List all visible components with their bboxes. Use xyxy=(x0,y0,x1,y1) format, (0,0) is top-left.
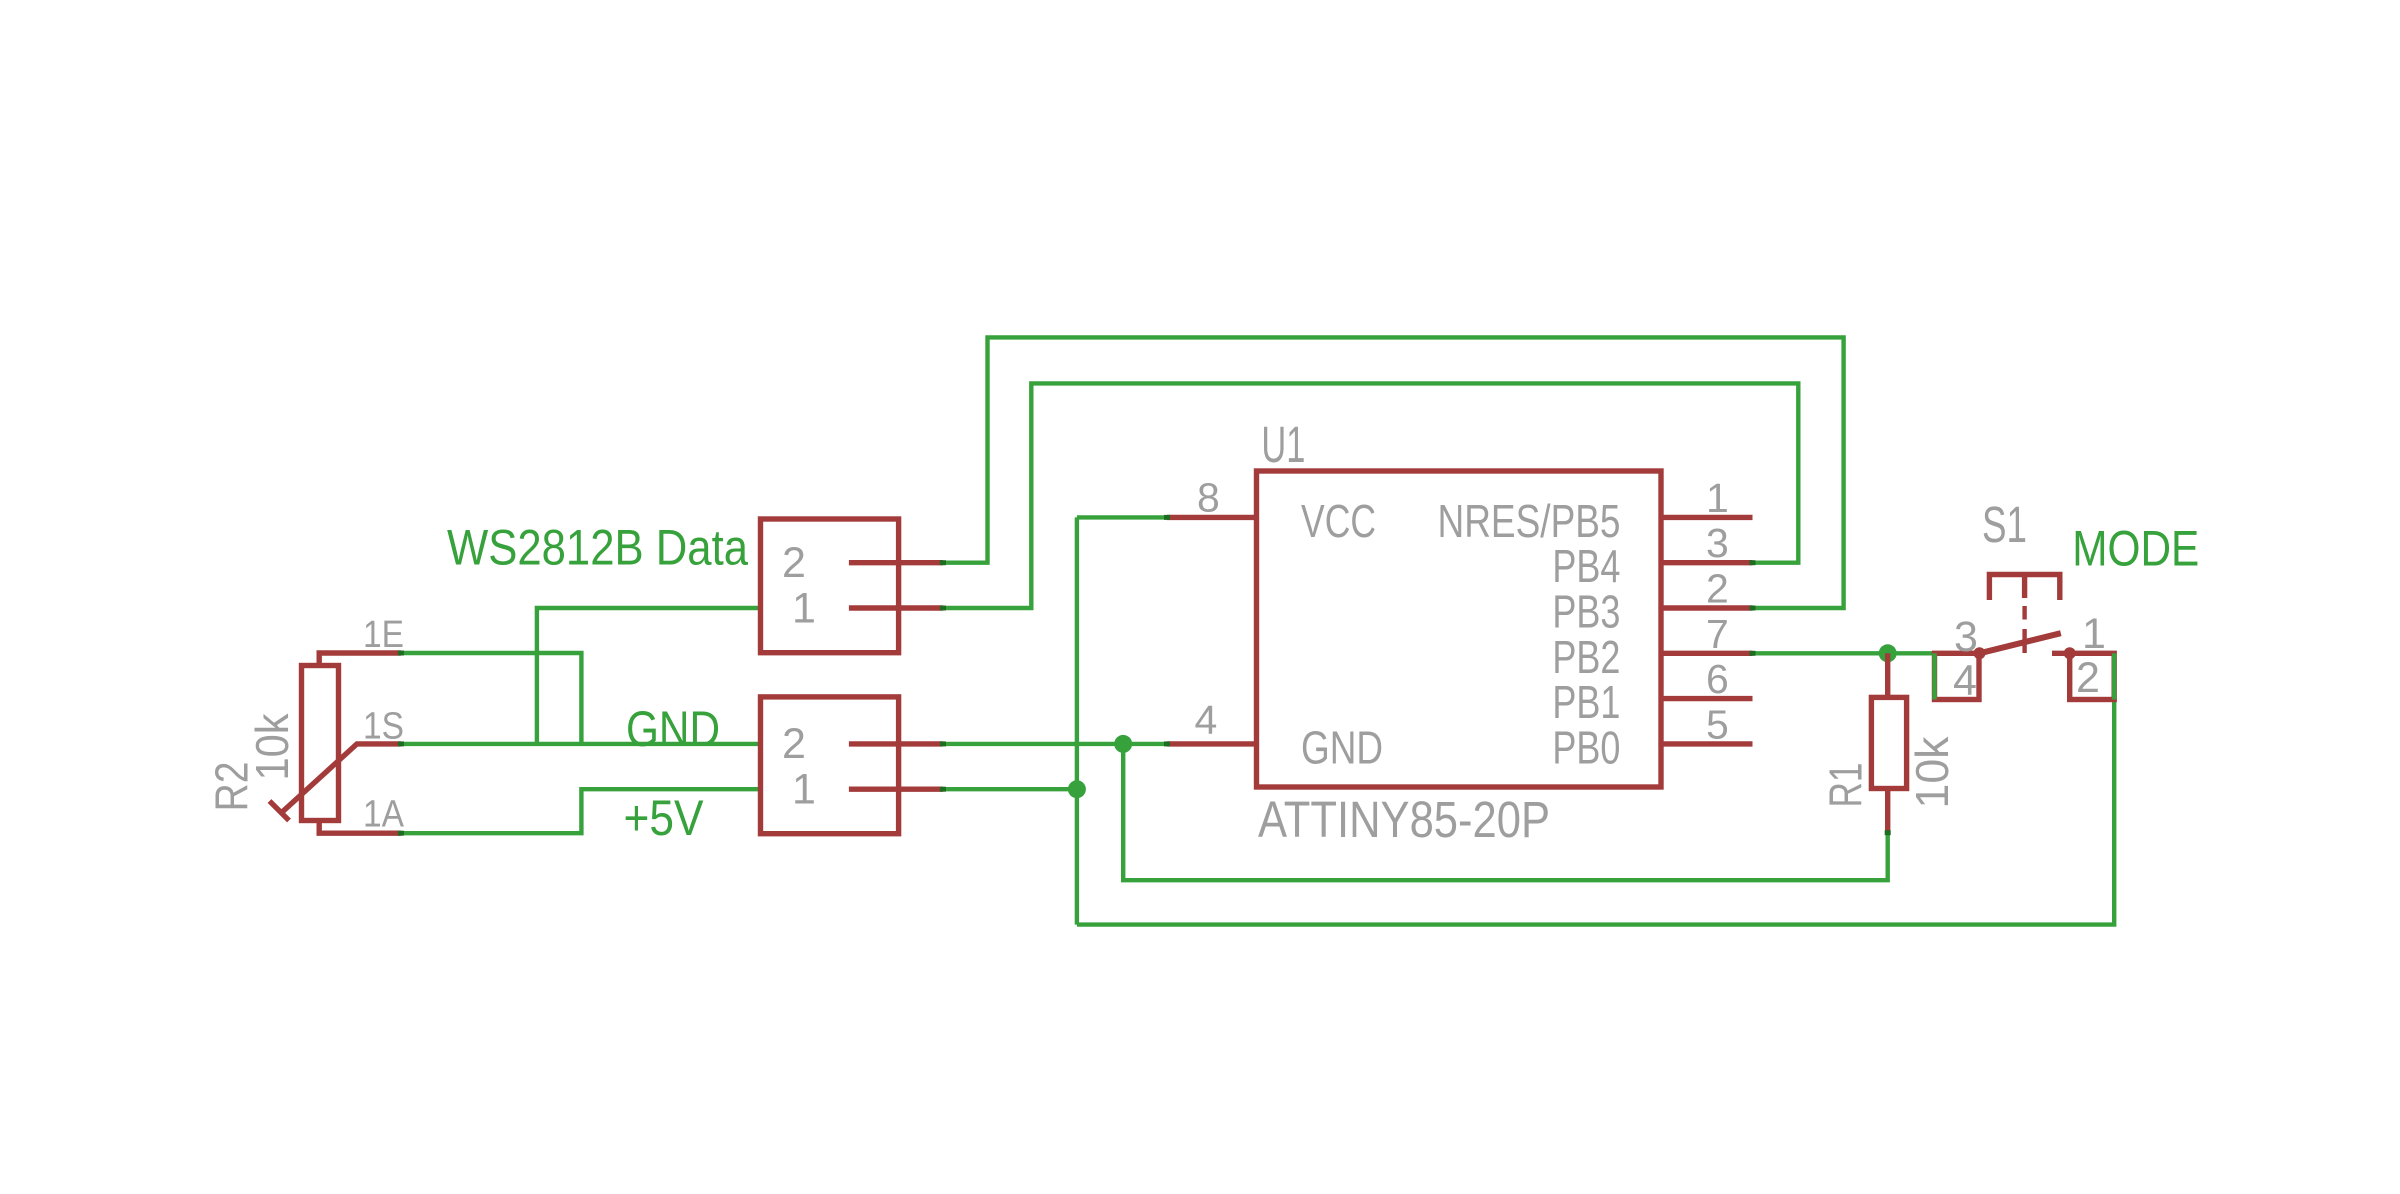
wire junction xyxy=(1750,560,1756,565)
R2 wiper crossbar xyxy=(270,801,290,821)
S1 actuator middle tick xyxy=(2022,575,2027,599)
R2 pin 1E lead xyxy=(319,653,401,666)
U1 pin 8 VCC stub xyxy=(1167,515,1257,520)
op-amp U1 box ATTINY85 xyxy=(1257,471,1662,787)
R2 pin 1A lead xyxy=(319,820,401,833)
svg-text:3: 3 xyxy=(1954,613,1978,661)
svg-text:VCC: VCC xyxy=(1301,495,1376,547)
junction +5V xyxy=(1068,780,1086,798)
svg-text:10k: 10k xyxy=(1906,736,1958,809)
svg-text:2: 2 xyxy=(782,539,806,587)
connector J1 box xyxy=(761,519,899,653)
svg-text:GND: GND xyxy=(1301,722,1383,774)
svg-text:5: 5 xyxy=(1706,701,1729,747)
svg-text:GND: GND xyxy=(626,701,720,757)
switch S1 actuator bracket xyxy=(1989,575,2059,601)
svg-text:2: 2 xyxy=(782,720,806,768)
R2 pin 1S wiper lead xyxy=(280,744,401,814)
J1 pin 1 xyxy=(849,605,943,610)
svg-text:1: 1 xyxy=(1706,475,1729,521)
wire PB2 to switch xyxy=(1753,651,1935,655)
svg-text:PB2: PB2 xyxy=(1552,631,1620,683)
wire junction xyxy=(398,831,404,836)
S1 dashed link xyxy=(2022,606,2026,620)
S1 pin 1 stub xyxy=(2052,651,2070,656)
wire junction xyxy=(1750,651,1756,656)
svg-text:1: 1 xyxy=(792,766,816,814)
resistor R1 top lead xyxy=(1885,653,1890,697)
connector J2 box xyxy=(761,697,899,834)
svg-text:1A: 1A xyxy=(363,794,405,836)
svg-text:U1: U1 xyxy=(1261,416,1305,473)
S1 pin 1/2 box xyxy=(2070,653,2115,699)
wire junction xyxy=(1885,830,1891,835)
svg-text:MODE: MODE xyxy=(2072,521,2199,577)
svg-text:6: 6 xyxy=(1706,656,1729,702)
S1 pin 3/4 box xyxy=(1935,653,1980,699)
wire +5V J2 pin1 to junction xyxy=(943,787,1077,791)
wire GND J2 pin2 to IC pin4 xyxy=(943,742,1167,746)
U1 pin 6 stub xyxy=(1661,696,1753,701)
wire junction xyxy=(1750,606,1756,611)
wire junction xyxy=(1164,741,1170,746)
wire overlay on 1/2 box right edge xyxy=(2112,653,2116,699)
wire junction xyxy=(940,741,946,746)
U1 pin 5 stub xyxy=(1661,741,1753,746)
U1 pin 2 stub xyxy=(1661,605,1753,610)
svg-text:2: 2 xyxy=(2076,654,2100,702)
svg-text:R1: R1 xyxy=(1820,763,1872,808)
svg-text:10k: 10k xyxy=(246,713,298,781)
potentiometer R2 body xyxy=(302,666,339,821)
wire 1A to +5V to connector J2 pin1 xyxy=(401,789,761,833)
S1 pin 1 dot xyxy=(2064,647,2076,659)
svg-text:PB3: PB3 xyxy=(1552,586,1620,638)
wire VCC riser xyxy=(1075,517,1079,924)
wire GND down and right to R1 xyxy=(1123,744,1888,880)
svg-text:S1: S1 xyxy=(1982,496,2027,553)
U1 pin 3 stub xyxy=(1661,560,1753,565)
svg-text:1: 1 xyxy=(2082,610,2106,658)
svg-text:1: 1 xyxy=(792,585,816,633)
wire junction xyxy=(1164,515,1170,520)
svg-text:3: 3 xyxy=(1706,520,1729,566)
resistor R1 body xyxy=(1871,697,1906,788)
svg-text:1S: 1S xyxy=(363,706,404,748)
wire GND tee up to connector J1 pin1 xyxy=(537,608,761,744)
svg-text:4: 4 xyxy=(1953,657,1977,705)
svg-text:PB1: PB1 xyxy=(1552,676,1620,728)
wire 1E to GND rail xyxy=(401,653,582,744)
resistor R1 bottom lead xyxy=(1885,789,1890,833)
svg-text:NRES/PB5: NRES/PB5 xyxy=(1438,495,1621,547)
svg-text:2: 2 xyxy=(1706,566,1729,612)
svg-text:WS2812B Data: WS2812B Data xyxy=(447,520,748,576)
svg-text:PB0: PB0 xyxy=(1552,721,1620,773)
wire +5V bottom run to switch xyxy=(1077,653,2114,924)
U1 pin 4 GND stub xyxy=(1167,741,1257,746)
wire J1 pin2 to IC PB3 (top loop) xyxy=(943,337,1844,608)
U1 pin 7 stub xyxy=(1661,651,1753,656)
S1 lever xyxy=(1980,633,2061,653)
wire junction xyxy=(940,606,946,611)
svg-text:7: 7 xyxy=(1706,611,1729,657)
wire junction xyxy=(940,787,946,792)
wire junction xyxy=(940,560,946,565)
svg-text:1E: 1E xyxy=(363,614,404,656)
J1 pin 2 xyxy=(849,560,943,565)
wire junction xyxy=(398,741,404,746)
svg-text:+5V: +5V xyxy=(624,790,705,846)
junction GND xyxy=(1114,735,1132,753)
wire junction xyxy=(398,651,404,656)
wire VCC vertical xyxy=(1077,515,1167,519)
wire J1 pin1 to IC PB4 (second loop) xyxy=(943,383,1798,608)
svg-text:ATTINY85-20P: ATTINY85-20P xyxy=(1258,791,1550,848)
J2 pin 2 xyxy=(849,741,943,746)
svg-text:8: 8 xyxy=(1197,475,1220,521)
J2 pin 1 xyxy=(849,787,943,792)
S1 pivot dot pin 3 xyxy=(1974,647,1986,659)
svg-text:4: 4 xyxy=(1195,697,1218,743)
wire overlay on 3/4 box left edge xyxy=(1932,653,1936,699)
svg-text:PB4: PB4 xyxy=(1552,540,1620,592)
U1 pin 1 stub xyxy=(1661,515,1753,520)
wire GND 1S to connector J2 pin2 xyxy=(401,742,761,746)
junction PB2/R1 xyxy=(1879,644,1897,662)
